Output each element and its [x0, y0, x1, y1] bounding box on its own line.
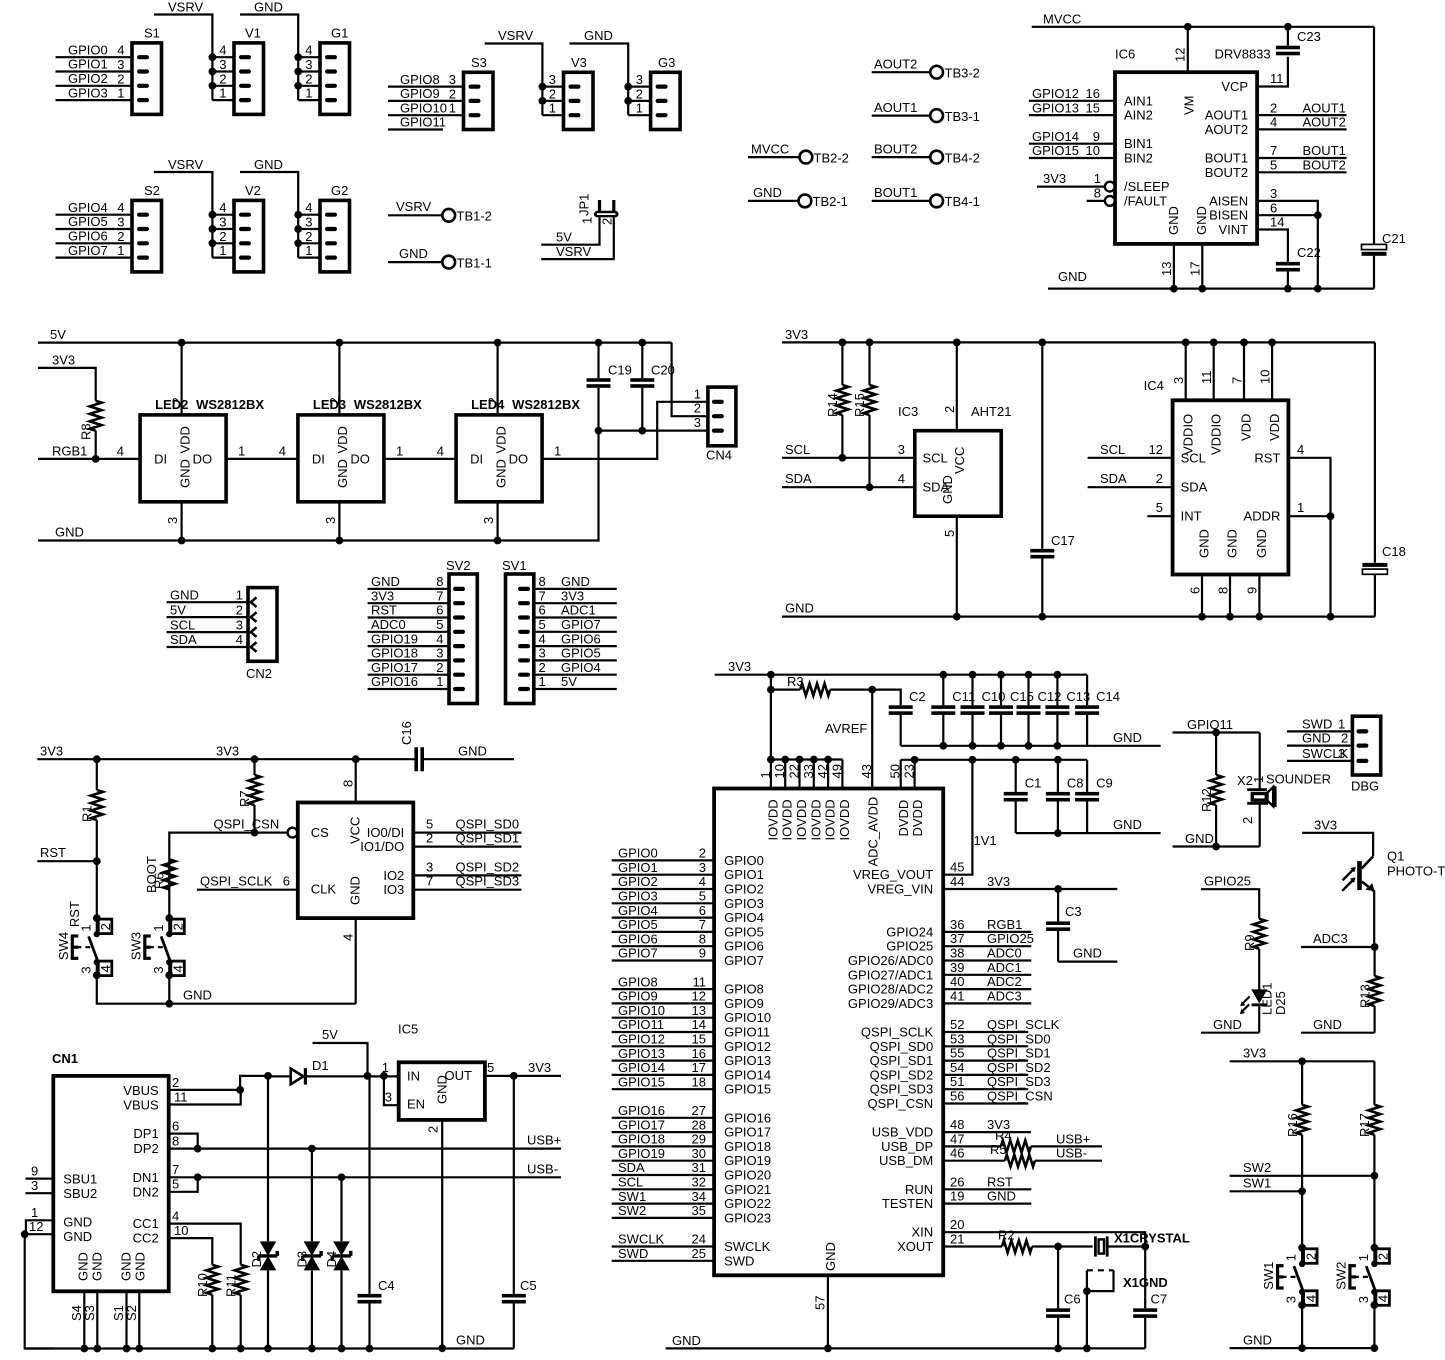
svg-text:GND: GND [458, 744, 487, 759]
resistor R17 [1357, 1061, 1380, 1176]
svg-text:25: 25 [692, 1246, 706, 1261]
svg-text:QSPI_SCLK: QSPI_SCLK [987, 1017, 1060, 1032]
capacitor C4 [358, 1076, 395, 1353]
svg-text:45: 45 [950, 860, 964, 875]
svg-text:R13: R13 [1357, 984, 1372, 1008]
svg-text:1: 1 [539, 674, 546, 689]
net ADC3 wire from pin 41 [943, 988, 1031, 1003]
net VSRV to V1 [154, 0, 234, 100]
IC4 VDDIO pin 11 wire [1199, 339, 1218, 401]
svg-text:SDA: SDA [1100, 471, 1127, 486]
svg-text:GPIO5: GPIO5 [618, 917, 658, 932]
svg-text:3V3: 3V3 [1243, 1046, 1266, 1061]
connector S3 [449, 55, 493, 130]
svg-text:VSRV: VSRV [168, 157, 203, 172]
svg-text:WS2812BX: WS2812BX [196, 397, 264, 412]
wire LED3 DO to LED4 DI [384, 443, 456, 459]
svg-text:DP2: DP2 [133, 1141, 158, 1156]
net GND rail (sensors) [782, 601, 1375, 617]
svg-text:7: 7 [699, 917, 706, 932]
MCU U1 RP2040 box [714, 789, 943, 1276]
net BOUT1 wire from pin 7 [1257, 143, 1347, 158]
net SWD wire to RP2040 pin 25 [612, 1246, 714, 1261]
svg-text:V3: V3 [571, 55, 587, 70]
svg-text:20: 20 [950, 1217, 964, 1232]
junction MVCC/C23 [1284, 23, 1292, 31]
svg-text:12: 12 [29, 1219, 43, 1234]
svg-text:2: 2 [636, 86, 643, 101]
wire SW1 net down to switch [1301, 1191, 1303, 1248]
svg-text:TB3-1: TB3-1 [945, 109, 980, 124]
net ADC0 wire to SV2 pin 5 [368, 617, 449, 632]
svg-text:QSPI_SD2: QSPI_SD2 [870, 1067, 934, 1082]
svg-text:3: 3 [117, 215, 124, 230]
svg-text:16: 16 [692, 1046, 706, 1061]
diode D1 [268, 1058, 399, 1085]
resistor R8 [79, 401, 102, 459]
svg-text:USB_VDD: USB_VDD [872, 1125, 933, 1140]
svg-text:VSRV: VSRV [168, 0, 203, 15]
svg-text:Q1: Q1 [1387, 849, 1404, 864]
svg-text:PHOTO-TR: PHOTO-TR [1387, 863, 1445, 878]
net GPIO19 wire to SV2 pin 4 [368, 631, 449, 646]
svg-text:VDD: VDD [177, 426, 192, 453]
connector SV1 [502, 558, 534, 704]
svg-text:GPIO25: GPIO25 [987, 931, 1034, 946]
LED LED3 WS2812B [298, 339, 422, 545]
svg-text:GPIO8: GPIO8 [724, 982, 764, 997]
net 3V3 USB_VDD pin 48 wire [943, 1117, 1031, 1132]
svg-text:R17: R17 [1357, 1113, 1372, 1137]
svg-text:SCL: SCL [1100, 442, 1125, 457]
svg-text:43: 43 [859, 764, 874, 778]
svg-text:49: 49 [829, 764, 844, 778]
flash GND pin 4 wire [341, 918, 356, 1004]
net GND to G3 [569, 28, 650, 115]
net GPIO10 wire to RP2040 pin 13 [612, 1003, 714, 1018]
svg-text:8: 8 [341, 780, 356, 787]
svg-text:C14: C14 [1096, 689, 1120, 704]
connector V1 [219, 25, 263, 114]
svg-text:4: 4 [341, 934, 356, 941]
net VSRV to V2 [154, 157, 234, 258]
resistor R16 [1285, 1061, 1308, 1191]
net GPIO15 wire to BIN2 pin 10 [1029, 143, 1115, 158]
svg-text:2: 2 [449, 86, 456, 101]
svg-text:GPIO8: GPIO8 [400, 72, 440, 87]
svg-text:SV1: SV1 [502, 558, 527, 573]
IC4 GND pin 6 wire [1187, 575, 1206, 621]
net 5V stub [313, 1027, 372, 1080]
svg-text:JP1: JP1 [577, 194, 592, 216]
svg-text:31: 31 [692, 1160, 706, 1175]
svg-text:3V3: 3V3 [987, 874, 1010, 889]
svg-text:SDA: SDA [170, 632, 197, 647]
capacitor C20 [630, 339, 675, 435]
wire 3V3 down to IOVDD bus [770, 675, 772, 760]
net GND wire (bypass row 2) [1016, 817, 1161, 833]
svg-text:R8: R8 [79, 423, 94, 440]
connector G3 [636, 55, 680, 130]
svg-text:2: 2 [305, 229, 312, 244]
svg-text:3: 3 [219, 215, 226, 230]
svg-text:GPIO5: GPIO5 [561, 646, 601, 661]
svg-text:VBUS: VBUS [123, 1098, 159, 1113]
net GPIO5 wire to RP2040 pin 7 [612, 917, 714, 932]
net SDA wire to IC3 [782, 471, 915, 487]
junction caps row2 GND [1054, 829, 1062, 837]
svg-text:2: 2 [539, 660, 546, 675]
svg-text:2: 2 [426, 1126, 441, 1133]
net DN2 pin 5 wire [169, 1177, 198, 1192]
svg-text:28: 28 [692, 1117, 706, 1132]
svg-text:13: 13 [692, 1003, 706, 1018]
net RGB1 wire [38, 443, 140, 459]
svg-text:C3: C3 [1065, 904, 1082, 919]
svg-text:9: 9 [1245, 587, 1260, 594]
IC4 ADDR pin 1 wire [1288, 500, 1334, 620]
net GND pin 12 wire [21, 1219, 54, 1348]
svg-text:3: 3 [117, 57, 124, 72]
svg-text:GND: GND [1166, 206, 1181, 235]
RP2040 IOVDD pin 49 [829, 760, 844, 789]
svg-text:AIN2: AIN2 [1124, 108, 1153, 123]
net 5V wire from SV1 pin 1 [534, 674, 617, 689]
resistor R10 [195, 1265, 218, 1353]
RP2040 IOVDD pin 10 [772, 760, 787, 789]
CN1 shield pin S4 wire [69, 1291, 88, 1352]
svg-text:SCL: SCL [923, 450, 948, 465]
svg-text:1: 1 [1356, 1254, 1371, 1261]
switch SW2 (user button) [1333, 1244, 1390, 1309]
terminal TB4-2 (BOUT2) [872, 141, 980, 165]
svg-text:GPIO12: GPIO12 [1032, 86, 1079, 101]
TVS diode D3 [294, 1149, 321, 1353]
svg-text:2: 2 [236, 602, 243, 617]
svg-text:56: 56 [950, 1089, 964, 1104]
connector DBG [1351, 716, 1381, 793]
svg-text:GPIO12: GPIO12 [724, 1039, 771, 1054]
IC3 GND pin 5 wire [942, 516, 961, 620]
svg-text:2: 2 [699, 846, 706, 861]
capacitor C11 [931, 671, 975, 750]
crystal ground X1GND [1083, 1270, 1168, 1352]
svg-text:6: 6 [172, 1119, 179, 1134]
resistor R3 [771, 674, 872, 696]
net GND pin 1 wire [26, 1205, 53, 1234]
net QSPI_SD1 wire from RP2040 pin 55 [943, 1046, 1050, 1061]
svg-text:GND: GND [785, 601, 814, 616]
net SCL wire to RP2040 pin 32 [612, 1175, 714, 1190]
svg-text:8: 8 [1215, 587, 1230, 594]
svg-text:2: 2 [549, 86, 556, 101]
svg-text:BOUT1: BOUT1 [874, 185, 917, 200]
svg-text:VM: VM [1182, 96, 1197, 116]
svg-text:D1: D1 [312, 1058, 329, 1073]
svg-text:SV2: SV2 [446, 558, 471, 573]
svg-text:46: 46 [950, 1146, 964, 1161]
svg-text:GPIO11: GPIO11 [618, 1017, 664, 1032]
connector G2 [305, 183, 349, 272]
svg-text:AOUT1: AOUT1 [1205, 108, 1248, 123]
svg-text:SWD: SWD [724, 1253, 754, 1268]
connector V2 [219, 183, 263, 272]
svg-text:GPIO5: GPIO5 [724, 924, 764, 939]
svg-text:1: 1 [219, 86, 226, 101]
svg-text:C5: C5 [520, 1278, 537, 1293]
CN1 shield pin S2 wire [124, 1291, 143, 1352]
net RST wire from RUN pin 26 [943, 1174, 1031, 1189]
svg-text:5: 5 [942, 530, 957, 537]
svg-text:GPIO2: GPIO2 [724, 882, 764, 897]
svg-text:10: 10 [1086, 143, 1100, 158]
net QSPI_CSN wire to flash CS with bubble [169, 817, 297, 919]
svg-text:2: 2 [600, 218, 615, 225]
svg-text:GND: GND [170, 587, 199, 602]
svg-text:TB1-2: TB1-2 [457, 209, 492, 224]
svg-text:3: 3 [165, 517, 180, 524]
svg-text:USB+: USB+ [1056, 1131, 1090, 1146]
net GPIO8 wire to S3 [388, 72, 464, 87]
svg-text:5: 5 [487, 1060, 494, 1075]
svg-text:G1: G1 [331, 25, 348, 40]
svg-text:C2: C2 [909, 689, 926, 704]
svg-text:1: 1 [636, 101, 643, 116]
svg-text:2: 2 [219, 229, 226, 244]
svg-text:4: 4 [117, 443, 124, 458]
IC5 pin 1 number [382, 1060, 389, 1075]
svg-text:GPIO13: GPIO13 [618, 1046, 665, 1061]
svg-text:GPIO21: GPIO21 [724, 1182, 771, 1197]
svg-text:36: 36 [950, 917, 964, 932]
net GPIO13 wire to AIN2 pin 15 [1029, 100, 1115, 115]
svg-text:RST: RST [987, 1174, 1013, 1189]
net SCL wire to CN2 pin 3 [167, 617, 248, 632]
svg-text:SW4: SW4 [56, 932, 71, 960]
svg-text:GND: GND [371, 574, 400, 589]
svg-text:BOUT1: BOUT1 [1303, 143, 1346, 158]
svg-text:21: 21 [950, 1232, 964, 1247]
svg-text:USB_DP: USB_DP [881, 1139, 933, 1154]
svg-text:53: 53 [950, 1031, 964, 1046]
phototransistor Q1 [1342, 849, 1445, 948]
svg-text:S2: S2 [124, 1305, 139, 1321]
net 5V rail [38, 327, 672, 343]
svg-text:X1CRYSTAL: X1CRYSTAL [1114, 1231, 1190, 1246]
net GPIO5 wire to S2 pin 3 [56, 214, 133, 229]
svg-text:8: 8 [699, 931, 706, 946]
svg-text:R9: R9 [1242, 934, 1257, 951]
svg-text:GND: GND [1194, 206, 1209, 235]
svg-text:SOUNDER: SOUNDER [1266, 772, 1331, 787]
net GPIO1 wire to RP2040 pin 3 [612, 860, 714, 875]
net GPIO12 wire to RP2040 pin 15 [612, 1032, 714, 1047]
svg-text:3V3: 3V3 [1043, 171, 1066, 186]
svg-text:QSPI_SD0: QSPI_SD0 [987, 1031, 1051, 1046]
svg-text:D25: D25 [1273, 991, 1288, 1015]
IC4 VDD pin 7 wire [1229, 339, 1248, 401]
svg-text:5V: 5V [170, 602, 186, 617]
svg-text:10: 10 [1257, 370, 1272, 384]
svg-text:AOUT1: AOUT1 [1303, 100, 1346, 115]
net ADC3 wire [1301, 931, 1378, 951]
BISEN pin 6 wire [1257, 200, 1322, 288]
resistor R6 [144, 856, 175, 893]
svg-text:VREG_VIN: VREG_VIN [867, 882, 933, 897]
svg-text:2: 2 [1303, 1253, 1318, 1260]
connector S1 [117, 25, 161, 114]
terminal TB1-2 (VSRV) [388, 199, 492, 224]
net GPIO3 wire to RP2040 pin 5 [612, 889, 714, 904]
svg-text:5: 5 [1156, 500, 1163, 515]
svg-text:QSPI_SD1: QSPI_SD1 [987, 1046, 1051, 1061]
capacitor C23 [1276, 27, 1321, 56]
svg-text:GPIO11: GPIO11 [400, 115, 446, 130]
net GND stub at C3 [1058, 946, 1117, 962]
net GPIO6 wire from SV1 pin 4 [534, 631, 617, 646]
LED LED2 WS2812B [140, 339, 264, 545]
svg-text:41: 41 [950, 988, 964, 1003]
net GND wire (bypass row 1) [901, 730, 1161, 746]
svg-text:GPIO27/ADC1: GPIO27/ADC1 [848, 967, 933, 982]
svg-text:RUN: RUN [905, 1182, 933, 1197]
svg-text:GPIO5: GPIO5 [68, 214, 108, 229]
svg-text:GND: GND [1113, 730, 1142, 745]
svg-text:BOUT2: BOUT2 [1205, 165, 1248, 180]
net GPIO11 wire to R12/sounder [1173, 717, 1260, 737]
svg-text:6: 6 [699, 903, 706, 918]
svg-text:3: 3 [323, 517, 338, 524]
svg-text:MVCC: MVCC [1043, 12, 1081, 27]
capacitor C5 [502, 1076, 537, 1349]
svg-text:IO3: IO3 [383, 882, 404, 897]
svg-text:10: 10 [174, 1223, 188, 1238]
svg-text:AOUT2: AOUT2 [874, 57, 917, 72]
svg-text:GND: GND [753, 185, 782, 200]
connector CN1 (USB) [52, 1051, 169, 1291]
svg-text:5V: 5V [322, 1027, 338, 1042]
svg-text:3: 3 [636, 72, 643, 87]
svg-text:8: 8 [1094, 185, 1101, 200]
svg-text:2: 2 [694, 401, 701, 416]
svg-text:VDD: VDD [335, 426, 350, 453]
svg-text:GPIO9: GPIO9 [618, 989, 658, 1004]
svg-text:AOUT1: AOUT1 [874, 100, 917, 115]
svg-text:3: 3 [305, 57, 312, 72]
svg-text:3: 3 [305, 215, 312, 230]
svg-text:ADC3: ADC3 [1313, 931, 1348, 946]
capacitor C7 [1133, 1247, 1167, 1349]
svg-text:G2: G2 [331, 183, 348, 198]
svg-text:5V: 5V [561, 674, 577, 689]
net GND to G2 [240, 157, 320, 258]
svg-text:48: 48 [950, 1117, 964, 1132]
svg-text:4: 4 [305, 43, 312, 58]
svg-text:DI: DI [154, 452, 167, 467]
svg-text:ADC2: ADC2 [987, 974, 1022, 989]
wire SW3 to GND rail [165, 975, 173, 1007]
svg-text:15: 15 [1086, 100, 1100, 115]
svg-text:CS: CS [311, 825, 329, 840]
svg-text:VDDIO: VDDIO [1208, 414, 1223, 455]
svg-text:QSPI_SD2: QSPI_SD2 [987, 1060, 1051, 1075]
svg-text:8: 8 [172, 1134, 179, 1149]
svg-text:GND: GND [987, 1189, 1016, 1204]
svg-text:GPIO4: GPIO4 [68, 200, 108, 215]
svg-text:VSRV: VSRV [396, 199, 431, 214]
net GND to G1 [240, 0, 320, 100]
svg-text:SWCLK: SWCLK [724, 1239, 771, 1254]
svg-text:50: 50 [888, 764, 903, 778]
svg-text:IOVDD: IOVDD [794, 799, 809, 840]
svg-text:C17: C17 [1051, 533, 1075, 548]
svg-text:R1: R1 [80, 805, 95, 822]
wire SW4 to GND rail [97, 975, 356, 1003]
terminal TB4-1 (BOUT1) [872, 185, 980, 209]
svg-text:4: 4 [117, 43, 124, 58]
svg-text:2: 2 [117, 71, 124, 86]
svg-text:38: 38 [950, 946, 964, 961]
svg-text:BOUT2: BOUT2 [1303, 158, 1346, 173]
net AOUT1 wire from pin 2 [1257, 100, 1347, 115]
svg-text:IOVDD: IOVDD [780, 799, 795, 840]
svg-text:GPIO7: GPIO7 [561, 617, 601, 632]
svg-text:GPIO14: GPIO14 [724, 1067, 771, 1082]
junction R8/RGB1 [92, 455, 100, 463]
net QSPI_SCLK wire from RP2040 pin 52 [943, 1017, 1059, 1032]
svg-text:GPIO19: GPIO19 [371, 631, 418, 646]
net QSPI_SD1 wire from pin 2 [413, 831, 521, 847]
svg-text:R5: R5 [990, 1142, 1007, 1157]
RP2040 DVDD pin 50 [888, 760, 903, 789]
svg-text:37: 37 [950, 931, 964, 946]
net GND wire from TESTEN pin 19 [943, 1189, 1031, 1204]
svg-text:11: 11 [1270, 71, 1284, 86]
svg-text:1: 1 [219, 243, 226, 258]
net GPIO5 wire from SV1 pin 3 [534, 646, 617, 661]
svg-text:GPIO6: GPIO6 [618, 931, 658, 946]
net 5V wire to JP1 pin 1 [541, 217, 599, 244]
net BOUT2 wire from pin 5 [1257, 158, 1347, 173]
net GND rail under LEDs [38, 431, 599, 541]
svg-text:GND: GND [177, 459, 192, 488]
svg-text:1: 1 [238, 443, 245, 458]
IC6 GND pin 13 wire [1159, 244, 1178, 293]
capacitor C19 [587, 339, 632, 435]
net GPIO9 wire to RP2040 pin 12 [612, 989, 714, 1004]
svg-text:QSPI_SD3: QSPI_SD3 [870, 1082, 934, 1097]
net GPIO15 wire to RP2040 pin 18 [612, 1074, 714, 1089]
svg-text:DBG: DBG [1351, 779, 1379, 794]
svg-text:24: 24 [692, 1232, 706, 1247]
svg-text:3V3: 3V3 [371, 588, 394, 603]
net SWCLK wire to DBG pin 3 [1287, 746, 1352, 761]
terminal TB2-2 (MVCC) [748, 141, 849, 165]
resistor R5 on USB_DM pin 46 [943, 1142, 1102, 1167]
svg-text:MVCC: MVCC [751, 141, 789, 156]
svg-text:1: 1 [1297, 500, 1304, 515]
svg-text:VREG_VOUT: VREG_VOUT [853, 867, 933, 882]
svg-text:4: 4 [236, 632, 243, 647]
resistor R9 [1242, 919, 1265, 990]
net GND label (flash) [183, 988, 212, 1003]
resistor R1 [80, 755, 103, 861]
svg-text:IO1/DO: IO1/DO [360, 839, 404, 854]
svg-text:QSPI_CSN: QSPI_CSN [987, 1089, 1053, 1104]
svg-text:C18: C18 [1382, 544, 1406, 559]
svg-text:AOUT2: AOUT2 [1205, 122, 1248, 137]
resistor R13 [1357, 947, 1380, 1033]
